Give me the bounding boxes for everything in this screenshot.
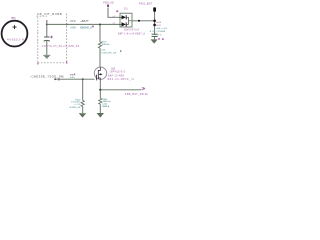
wire: diode output to P301 column — [131, 20, 154, 22]
ground arrow (under C301) — [151, 39, 158, 43]
dashed box left edge purple dashes — [37, 24, 39, 65]
junction: gate / R302 branch — [82, 78, 84, 80]
svg-text:G8L+/-4%: G8L+/-4% — [156, 28, 167, 30]
svg-text:4V955J-N: 4V955J-N — [7, 37, 24, 41]
dashed box bottom-left corner purple dash — [37, 63, 38, 65]
svg-text:P-0603-HE_GE: P-0603-HE_GE — [100, 53, 117, 55]
wire: R302 branch down — [82, 79, 84, 100]
MOSFET Q300 substrate arrow — [101, 73, 102, 75]
wire: sense net horizontal to port — [100, 89, 141, 91]
svg-text:+/-1%: +/-1% — [101, 49, 106, 51]
annotation gate net name tail (magenta) — [74, 74, 75, 76]
junction dot on diode output — [138, 20, 140, 22]
wire: main horizontal net — [47, 23, 120, 25]
battery BT1 plus mark — [13, 25, 17, 29]
svg-text:B8f: B8f — [156, 25, 161, 27]
capacitor C300 plate 2 (curved) — [44, 39, 50, 42]
port P302 pin — [107, 5, 109, 7]
diode D300 lower diode — [122, 22, 126, 26]
svg-text:P302_AD: P302_AD — [103, 2, 114, 5]
diode D300 common cathode join — [129, 17, 132, 24]
dashed box bottom-right corner purple dash — [66, 61, 67, 63]
MOSFET Q300 source stub — [98, 78, 100, 79]
net tie mark (purple) on gate wire — [58, 78, 59, 81]
svg-text:25V: 25V — [156, 34, 162, 36]
svg-text:FB_INT_BUBB: FB_INT_BUBB — [37, 12, 61, 16]
svg-text:B-0603_GE: B-0603_GE — [70, 107, 82, 109]
wire: capacitor to ground — [46, 41, 48, 55]
tiny purple marks near ground — [158, 38, 160, 39]
wire: C301 to ground — [154, 36, 156, 39]
node: gate net start dot — [54, 78, 56, 80]
diode D300 upper diode — [122, 15, 126, 19]
svg-text:Q30: Q30 — [111, 69, 116, 71]
svg-text:P301_BAT: P301_BAT — [139, 1, 153, 5]
wire: gate net horizontal — [55, 78, 94, 80]
wire: R303 to ground — [99, 104, 101, 113]
svg-text:m8a: m8a — [70, 77, 76, 79]
wire: junction down to R301 — [99, 25, 101, 43]
wire: MOSFET source down — [99, 79, 101, 89]
capacitor C300 plate 1 — [44, 36, 50, 38]
svg-text:+BATT: +BATT — [80, 19, 89, 23]
wire: vertical from label stub to capacitor — [46, 21, 48, 37]
svg-text:B8F5/E?(+8: B8F5/E?(+8 — [124, 30, 139, 32]
svg-text:D3: D3 — [124, 8, 128, 11]
battery BT1 — [2, 21, 28, 47]
dashed box top edge — [37, 15, 48, 17]
svg-text:3V0: 3V0 — [70, 19, 76, 23]
annotation net class tail (purple) — [92, 26, 94, 28]
svg-text:C3G8B8: C3G8B8 — [156, 31, 166, 33]
MOSFET Q300 gate bar — [95, 75, 97, 81]
svg-text:(MPN)5/5-D: (MPN)5/5-D — [110, 72, 126, 74]
svg-text:B8F-1-8-m-8-8B8?_8: B8F-1-8-m-8-8B8?_8 — [118, 32, 145, 35]
wire: R302 to ground — [82, 107, 84, 114]
MOSFET Q300 channel bar — [97, 70, 99, 79]
svg-text:B8828_A: B8828_A — [103, 105, 110, 108]
capacitor C301 plate 1 — [152, 33, 158, 35]
svg-text:(+/-%): (+/-%) — [103, 104, 108, 106]
svg-text:B842MG_A: B842MG_A — [80, 27, 92, 30]
wire: P302 down and to diode pin — [108, 8, 120, 18]
dashed box right edge — [66, 14, 68, 64]
ground GND (under C300) — [43, 55, 50, 58]
port P301 pin — [153, 7, 156, 12]
junction: main wire / R301 branch — [99, 24, 101, 26]
svg-text:+/-5%: +/-5% — [74, 104, 81, 106]
capacitor C301 plate 2 — [152, 35, 158, 37]
dashed box bottom edge — [38, 62, 67, 64]
svg-text:B8d: B8d — [156, 22, 161, 24]
pin number (top) — [116, 10, 118, 12]
svg-text:B8F-23-4BNC_/2: B8F-23-4BNC_/2 — [108, 78, 135, 81]
svg-text:-C8E39E_73GE_9M: -C8E39E_73GE_9M — [30, 75, 64, 79]
junction: main wire / cap branch — [46, 23, 48, 25]
svg-text:C3B7/N-C5_BA+3|_B8B_BA: C3B7/N-C5_BA+3|_B8B_BA — [42, 44, 80, 48]
ground arrow (under R302) — [79, 113, 86, 117]
resistor R303 — [99, 98, 102, 104]
MOSFET Q300 drain stub — [98, 67, 100, 70]
diode D300 package box — [120, 13, 132, 27]
node: net attach dot — [46, 20, 48, 22]
junction: source / sense net — [99, 89, 101, 91]
svg-text:787kOhm: 787kOhm — [102, 44, 110, 46]
dashed box right edge purple dash at wire crossing — [66, 24, 67, 26]
resistor R302 — [81, 100, 84, 106]
MOSFET Q300 body circle — [94, 67, 106, 79]
capacitor C300 polarity plus — [50, 36, 53, 39]
junction: cap branch — [153, 24, 156, 27]
svg-text:+/-5%: +/-5% — [70, 27, 77, 30]
wire: R301 to MOSFET drain — [99, 48, 101, 67]
port chevron >> — [142, 87, 145, 90]
dashed box left edge — [37, 17, 39, 64]
ground arrow (under R303) — [97, 113, 104, 118]
stray mark — [120, 50, 121, 52]
wire: P301 column vertical — [154, 12, 156, 35]
resistor R301 — [98, 42, 101, 48]
junction: main diode net / P301 — [153, 20, 156, 23]
svg-text:FB8_BAT_R3r3u: FB8_BAT_R3r3u — [125, 92, 149, 96]
wire: junction down to R303 — [99, 90, 101, 98]
svg-text:BT1: BT1 — [11, 16, 16, 20]
